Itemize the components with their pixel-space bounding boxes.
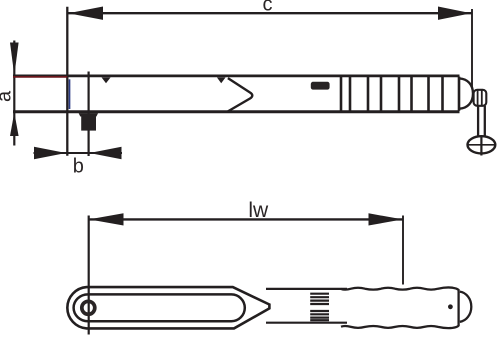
dimension a bottom arrow	[10, 112, 19, 136]
hanger stem right	[484, 106, 486, 137]
lever slot plan view	[74, 294, 245, 321]
drive square ring	[82, 301, 95, 314]
hanger ring stem line	[480, 136, 482, 155]
wrench bottom line	[13, 110, 460, 113]
head right edge / c-b extension line	[66, 7, 68, 156]
sleeve chevron	[228, 78, 252, 111]
triangle mark 1	[102, 77, 111, 83]
square drive flange	[79, 113, 99, 116]
dimension a line	[13, 41, 15, 146]
hanger stem left	[477, 106, 479, 137]
dimension c right extension line	[471, 9, 473, 89]
svg-text:b: b	[73, 156, 84, 178]
logo patch	[311, 82, 330, 90]
dimension lw right arrow	[369, 213, 403, 225]
dimension b line	[34, 152, 123, 154]
end cap side view	[460, 78, 474, 108]
lw left extension line	[88, 216, 90, 335]
square drive peg	[81, 117, 96, 131]
handle dot	[448, 304, 453, 309]
svg-text:c: c	[263, 0, 273, 16]
triangle mark 2	[217, 77, 226, 83]
svg-text:lw: lw	[248, 199, 269, 222]
handle top wave plan view	[341, 287, 459, 290]
hanger clip inner line 1	[477, 91, 479, 106]
dimension c right arrow	[438, 7, 471, 20]
dimension lw left arrow	[89, 213, 124, 225]
blue head line	[69, 79, 71, 109]
dimension c left arrow	[68, 7, 103, 20]
handle bottom wave plan view	[341, 326, 459, 329]
tube bottom line plan view	[266, 322, 347, 324]
hanger ring cross line	[468, 144, 495, 146]
handle end line plan view	[457, 289, 459, 326]
hanger ring	[468, 136, 496, 153]
wrench top line	[13, 75, 460, 78]
hanger clip inner line 2	[481, 91, 483, 106]
ridge patch group 1	[310, 294, 329, 304]
lw right extension line	[402, 216, 404, 285]
pommel plan view	[460, 292, 472, 322]
ridge patch group 2	[310, 311, 329, 320]
hanger clip body	[474, 90, 487, 106]
dimension a top arrow	[10, 43, 19, 76]
dimension c line	[68, 12, 472, 14]
square drive centre extension line	[87, 72, 89, 157]
red head top edge	[13, 76, 67, 78]
body outline plan view	[67, 287, 269, 328]
dimension b left arrow	[34, 147, 66, 160]
tube top line plan view	[266, 288, 347, 290]
dimension lw line	[89, 218, 403, 220]
svg-text:a: a	[0, 90, 16, 102]
dimension b right arrow	[90, 147, 122, 160]
grip rib lines	[341, 77, 459, 111]
